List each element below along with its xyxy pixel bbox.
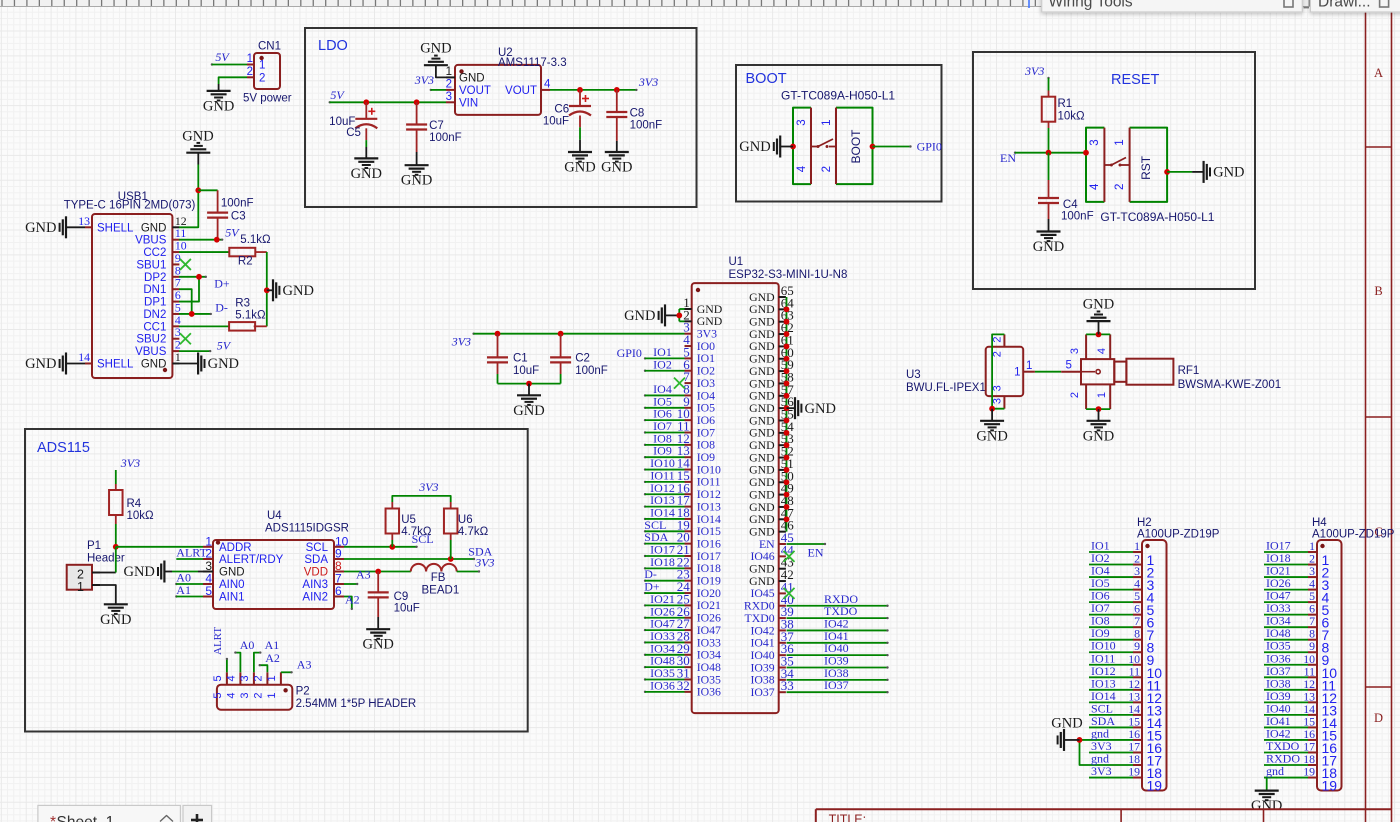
- svg-text:C4: C4: [1063, 199, 1078, 211]
- svg-text:B: B: [1374, 284, 1382, 298]
- svg-text:VOUT: VOUT: [459, 85, 491, 97]
- svg-text:10uF: 10uF: [543, 116, 569, 128]
- svg-text:AIN3: AIN3: [302, 579, 328, 591]
- svg-text:14: 14: [78, 350, 90, 364]
- svg-text:A100UP-ZD19P: A100UP-ZD19P: [1137, 529, 1220, 541]
- svg-text:5V: 5V: [225, 226, 240, 240]
- svg-text:VIN: VIN: [459, 97, 478, 109]
- svg-text:GND: GND: [100, 612, 131, 628]
- svg-text:ADS1115IDGSR: ADS1115IDGSR: [265, 523, 349, 535]
- svg-text:3: 3: [1089, 139, 1101, 145]
- svg-text:BOOT: BOOT: [746, 71, 787, 87]
- svg-text:5: 5: [1065, 360, 1071, 372]
- svg-text:5.1kΩ: 5.1kΩ: [235, 310, 266, 322]
- svg-text:DP2: DP2: [144, 272, 166, 284]
- svg-text:BOOT: BOOT: [849, 129, 863, 164]
- svg-text:A3: A3: [297, 657, 312, 671]
- svg-text:U3: U3: [906, 369, 921, 381]
- svg-text:GND: GND: [1083, 428, 1114, 444]
- svg-text:1: 1: [175, 350, 181, 364]
- svg-text:SHELL: SHELL: [97, 222, 134, 234]
- svg-text:5V: 5V: [217, 339, 232, 353]
- svg-text:D: D: [1374, 711, 1383, 725]
- svg-text:AIN1: AIN1: [219, 592, 245, 604]
- svg-text:AMS1117-3.3: AMS1117-3.3: [498, 57, 567, 69]
- svg-text:*: *: [50, 814, 56, 822]
- svg-text:1: 1: [821, 119, 833, 125]
- svg-text:GPI0: GPI0: [617, 346, 642, 360]
- svg-text:AIN0: AIN0: [219, 579, 245, 591]
- svg-text:3: 3: [796, 119, 808, 125]
- svg-text:DP1: DP1: [144, 297, 166, 309]
- svg-text:2: 2: [446, 78, 452, 90]
- svg-text:GND: GND: [624, 308, 655, 324]
- svg-text:5: 5: [205, 584, 212, 598]
- svg-text:GND: GND: [25, 356, 56, 372]
- svg-text:SHELL: SHELL: [97, 358, 134, 370]
- svg-text:gnd: gnd: [1091, 726, 1109, 740]
- svg-text:5V: 5V: [330, 88, 345, 102]
- svg-text:10kΩ: 10kΩ: [1058, 111, 1086, 123]
- svg-text:GND: GND: [141, 222, 167, 234]
- svg-text:R3: R3: [235, 298, 250, 310]
- svg-text:3V3: 3V3: [418, 480, 438, 494]
- svg-text:U4: U4: [267, 510, 282, 522]
- svg-text:U5: U5: [401, 514, 416, 526]
- svg-text:VOUT: VOUT: [505, 85, 537, 97]
- svg-text:19: 19: [1322, 778, 1338, 794]
- svg-text:1: 1: [266, 675, 278, 681]
- svg-text:VBUS: VBUS: [135, 235, 167, 247]
- svg-text:3V3: 3V3: [414, 73, 434, 87]
- svg-text:4.7kΩ: 4.7kΩ: [458, 526, 489, 538]
- svg-text:C5: C5: [346, 127, 361, 139]
- svg-text:R4: R4: [127, 498, 142, 510]
- svg-text:3V3: 3V3: [474, 556, 494, 570]
- svg-text:2: 2: [1114, 184, 1126, 190]
- svg-text:A3: A3: [356, 568, 371, 582]
- svg-text:GND: GND: [401, 173, 432, 189]
- svg-text:13: 13: [78, 214, 90, 228]
- svg-text:gnd: gnd: [1091, 752, 1109, 766]
- svg-text:BWSMA-KWE-Z001: BWSMA-KWE-Z001: [1178, 379, 1282, 391]
- svg-text:3: 3: [1069, 348, 1081, 354]
- svg-text:A2: A2: [345, 593, 360, 607]
- svg-text:GND: GND: [459, 72, 485, 84]
- svg-text:ESP32-S3-MINI-1U-N8: ESP32-S3-MINI-1U-N8: [729, 269, 848, 281]
- svg-text:10uF: 10uF: [394, 603, 420, 615]
- svg-text:GND: GND: [219, 567, 245, 579]
- svg-text:C6: C6: [554, 104, 569, 116]
- svg-text:A1: A1: [265, 638, 280, 652]
- svg-text:GND: GND: [420, 41, 451, 57]
- svg-text:2.54MM 1*5P HEADER: 2.54MM 1*5P HEADER: [296, 698, 417, 710]
- svg-text:1: 1: [1114, 139, 1126, 145]
- svg-text:TYPE-C 16PIN 2MD(073): TYPE-C 16PIN 2MD(073): [64, 200, 196, 212]
- svg-text:C2: C2: [575, 353, 590, 365]
- svg-text:GND: GND: [1251, 798, 1282, 814]
- svg-text:3: 3: [446, 91, 452, 103]
- svg-text:5: 5: [212, 675, 224, 681]
- svg-text:SCL: SCL: [306, 542, 329, 554]
- svg-text:ALRT: ALRT: [176, 546, 207, 560]
- svg-text:FB: FB: [431, 572, 446, 584]
- svg-text:GND: GND: [976, 428, 1007, 444]
- svg-text:IO37: IO37: [824, 678, 849, 692]
- svg-text:CC2: CC2: [143, 247, 166, 259]
- svg-text:1: 1: [259, 60, 265, 72]
- svg-text:GND: GND: [283, 283, 314, 299]
- svg-text:AIN2: AIN2: [302, 592, 328, 604]
- svg-text:RST: RST: [1139, 155, 1153, 180]
- svg-text:A2: A2: [265, 651, 280, 665]
- svg-text:C3: C3: [231, 211, 246, 223]
- svg-text:4: 4: [544, 78, 551, 90]
- svg-text:H2: H2: [1137, 517, 1152, 529]
- svg-text:GND: GND: [203, 98, 234, 114]
- svg-text:19: 19: [1147, 778, 1163, 794]
- svg-text:3V3: 3V3: [120, 456, 140, 470]
- svg-text:A0: A0: [240, 638, 255, 652]
- svg-text:SBU2: SBU2: [136, 334, 166, 346]
- svg-text:IO2: IO2: [653, 357, 672, 371]
- svg-text:GND: GND: [601, 160, 632, 176]
- svg-text:R2: R2: [238, 256, 253, 268]
- svg-text:2: 2: [247, 66, 253, 78]
- svg-text:1: 1: [247, 53, 253, 65]
- svg-text:IO36: IO36: [697, 685, 721, 699]
- svg-text:4: 4: [1089, 183, 1101, 190]
- svg-text:GND: GND: [805, 401, 836, 417]
- svg-text:10uF: 10uF: [513, 365, 539, 377]
- svg-text:CC1: CC1: [143, 321, 166, 333]
- svg-text:100nF: 100nF: [221, 197, 254, 209]
- svg-text:100nF: 100nF: [429, 132, 462, 144]
- svg-text:3: 3: [239, 675, 251, 681]
- svg-text:Sheet_1: Sheet_1: [57, 814, 115, 822]
- svg-text:IO37: IO37: [750, 685, 774, 699]
- svg-text:LDO: LDO: [318, 38, 348, 54]
- svg-text:100nF: 100nF: [575, 365, 608, 377]
- svg-text:5.1kΩ: 5.1kΩ: [240, 234, 271, 246]
- svg-text:U1: U1: [729, 256, 744, 268]
- svg-text:3V3: 3V3: [451, 335, 471, 349]
- svg-text:GND: GND: [1083, 297, 1114, 313]
- svg-text:C9: C9: [394, 591, 409, 603]
- svg-text:4: 4: [225, 692, 237, 698]
- svg-text:H4: H4: [1312, 517, 1327, 529]
- svg-text:P2: P2: [296, 686, 310, 698]
- svg-text:DN2: DN2: [143, 309, 166, 321]
- svg-text:ADDR: ADDR: [219, 542, 252, 554]
- svg-text:GND: GND: [362, 637, 393, 653]
- svg-text:1: 1: [266, 692, 278, 698]
- svg-text:100nF: 100nF: [630, 120, 663, 132]
- svg-text:GND: GND: [1213, 165, 1244, 181]
- svg-text:C8: C8: [630, 108, 645, 120]
- svg-text:SDA: SDA: [304, 554, 328, 566]
- svg-text:GND: GND: [141, 358, 167, 370]
- svg-text:IO36: IO36: [650, 678, 675, 692]
- svg-text:GND: GND: [25, 220, 56, 236]
- svg-text:BWU.FL-IPEX1: BWU.FL-IPEX1: [906, 382, 986, 394]
- svg-text:4: 4: [796, 165, 808, 172]
- svg-text:GND: GND: [564, 160, 595, 176]
- svg-text:2: 2: [821, 166, 833, 172]
- svg-text:5V: 5V: [215, 50, 230, 64]
- svg-text:EN: EN: [808, 546, 824, 560]
- svg-text:1: 1: [446, 66, 452, 78]
- svg-text:1: 1: [77, 580, 84, 594]
- svg-text:3V3: 3V3: [638, 75, 658, 89]
- svg-text:GND: GND: [1033, 239, 1064, 255]
- svg-text:19: 19: [1128, 765, 1140, 779]
- svg-text:4.7kΩ: 4.7kΩ: [401, 526, 432, 538]
- svg-text:A100UP-ZD19P: A100UP-ZD19P: [1312, 529, 1395, 541]
- svg-text:GND: GND: [208, 356, 239, 372]
- svg-text:2: 2: [259, 72, 265, 84]
- svg-text:RF1: RF1: [1178, 365, 1200, 377]
- svg-text:1: 1: [1026, 360, 1032, 372]
- svg-text:5V power: 5V power: [243, 93, 292, 105]
- svg-text:3: 3: [992, 398, 1004, 404]
- svg-text:6: 6: [335, 584, 342, 598]
- svg-text:SBU1: SBU1: [136, 259, 166, 271]
- svg-text:2: 2: [992, 351, 1004, 357]
- svg-text:3: 3: [239, 692, 251, 698]
- svg-text:C7: C7: [429, 120, 444, 132]
- svg-text:10kΩ: 10kΩ: [127, 510, 155, 522]
- svg-text:A1: A1: [176, 583, 191, 597]
- svg-text:R1: R1: [1058, 98, 1073, 110]
- svg-text:GND: GND: [739, 139, 770, 155]
- svg-text:ADS115: ADS115: [37, 440, 90, 456]
- svg-text:Drawi...: Drawi...: [1318, 0, 1371, 11]
- svg-text:2: 2: [1069, 392, 1081, 398]
- svg-text:3: 3: [992, 385, 1004, 391]
- svg-text:1: 1: [1014, 367, 1020, 379]
- svg-text:D+: D+: [214, 277, 230, 291]
- svg-text:D-: D-: [215, 301, 228, 315]
- svg-text:C1: C1: [513, 353, 528, 365]
- svg-text:Header: Header: [87, 553, 125, 565]
- svg-text:2: 2: [992, 337, 1004, 343]
- svg-text:ALRT: ALRT: [212, 627, 224, 655]
- svg-text:TITLE:: TITLE:: [829, 813, 867, 822]
- svg-text:GT-TC089A-H050-L1: GT-TC089A-H050-L1: [1100, 210, 1214, 224]
- svg-text:1: 1: [1096, 392, 1108, 398]
- svg-text:GPI0: GPI0: [917, 140, 942, 154]
- svg-text:VDD: VDD: [304, 567, 328, 579]
- svg-text:ALERT/RDY: ALERT/RDY: [219, 554, 284, 566]
- svg-text:GND: GND: [513, 403, 544, 419]
- svg-text:3V3: 3V3: [1091, 764, 1112, 778]
- svg-text:gnd: gnd: [1266, 764, 1284, 778]
- svg-text:U6: U6: [458, 514, 473, 526]
- svg-text:GND: GND: [351, 166, 382, 182]
- svg-text:GT-TC089A-H050-L1: GT-TC089A-H050-L1: [781, 89, 895, 103]
- svg-text:19: 19: [1303, 765, 1315, 779]
- svg-text:100nF: 100nF: [1061, 211, 1094, 223]
- svg-text:RESET: RESET: [1111, 72, 1159, 88]
- svg-text:P1: P1: [87, 540, 101, 552]
- svg-text:4: 4: [1096, 348, 1108, 354]
- svg-text:CN1: CN1: [258, 41, 281, 53]
- svg-text:DN1: DN1: [143, 284, 166, 296]
- svg-text:4: 4: [225, 675, 237, 681]
- svg-text:2: 2: [252, 692, 264, 698]
- svg-text:VBUS: VBUS: [135, 346, 167, 358]
- svg-text:5: 5: [212, 692, 224, 698]
- svg-text:BEAD1: BEAD1: [422, 585, 460, 597]
- svg-text:Wiring Tools: Wiring Tools: [1049, 0, 1133, 11]
- svg-text:GND: GND: [1051, 716, 1082, 732]
- svg-text:A: A: [1374, 66, 1383, 80]
- svg-text:GND: GND: [123, 564, 154, 580]
- svg-text:3V3: 3V3: [1024, 64, 1044, 78]
- svg-text:2: 2: [252, 675, 264, 681]
